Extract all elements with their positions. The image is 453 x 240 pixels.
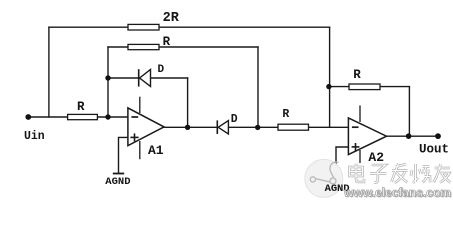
- wire A1 noninverting input: [119, 137, 129, 173]
- wire A1 output line y=127.3: [164, 126, 348, 128]
- op-amp A2 power pins: [359, 105, 361, 122]
- op-amp A1 power pins: [139, 97, 141, 113]
- node junction A2 output: [406, 133, 412, 139]
- resistor R box (main input): [68, 114, 98, 119]
- node junction x=108 diode line: [105, 75, 110, 80]
- node junction x=258: [255, 125, 260, 130]
- node junction feedback tap: [326, 84, 331, 89]
- diode D1 (top): [139, 69, 151, 86]
- svg-text:R: R: [163, 35, 171, 49]
- op-amp A2 plus sign: [352, 143, 360, 151]
- svg-text:www.elecfans.com: www.elecfans.com: [343, 185, 451, 199]
- svg-text:2R: 2R: [163, 11, 180, 26]
- wire main input line y=117: [28, 116, 128, 118]
- wire left vertical x=48.9: [48, 27, 50, 117]
- wire diode line y=78: [108, 77, 188, 79]
- wire second R line y=47: [108, 46, 258, 48]
- wire vertical x=108: [107, 47, 109, 117]
- node junction x=108 main line: [105, 114, 110, 119]
- resistor 2R box: [128, 24, 159, 30]
- svg-text:D: D: [158, 64, 165, 76]
- wire A2 output line: [387, 135, 439, 137]
- wire vertical x=409.4: [408, 87, 410, 137]
- ground AGND bar under A2: [330, 182, 342, 184]
- wire A2 noninverting input: [336, 147, 348, 182]
- svg-text:A2: A2: [368, 150, 384, 165]
- svg-text:R: R: [353, 68, 361, 82]
- svg-text:R: R: [77, 100, 85, 114]
- watermark logo disc: [305, 159, 343, 197]
- svg-text:Uin: Uin: [24, 130, 45, 143]
- ground AGND bar under A1: [113, 173, 124, 175]
- resistor R box (middle): [278, 124, 309, 130]
- svg-text:R: R: [282, 108, 289, 121]
- op-amp A2: [348, 118, 386, 155]
- svg-text:AGND: AGND: [105, 176, 130, 188]
- resistor R box (A2 feedback): [349, 84, 380, 90]
- svg-text:AG: AG: [325, 183, 338, 195]
- op-amp A1: [128, 108, 164, 146]
- op-amp A2 minus sign: [352, 126, 359, 128]
- resistor R box (second line): [128, 44, 159, 49]
- wire feedback line y=86.6: [329, 86, 410, 88]
- wire right vertical x=329.6: [329, 27, 331, 127]
- wire vertical x=187.6: [187, 78, 189, 127]
- node Uin terminal dot: [25, 114, 31, 120]
- svg-text:Uout: Uout: [419, 143, 449, 157]
- svg-text:A1: A1: [148, 143, 164, 158]
- node Uout terminal dot: [435, 133, 441, 139]
- op-amp A1 plus sign: [130, 133, 138, 141]
- wire top 2R line y=27.2: [49, 26, 330, 28]
- svg-text:D: D: [231, 113, 238, 126]
- node junction A1 output: [185, 125, 190, 130]
- wire vertical x=258: [257, 47, 259, 127]
- diode D2 (middle): [217, 120, 228, 134]
- op-amp A1 minus sign: [131, 116, 138, 118]
